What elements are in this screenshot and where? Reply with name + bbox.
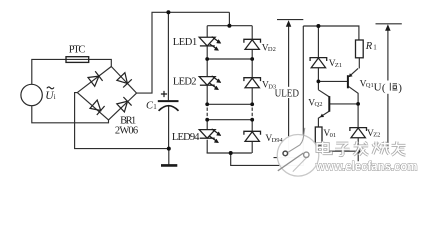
svg-text:1: 1 <box>153 103 157 111</box>
svg-text:(: ( <box>382 82 386 94</box>
svg-text:U: U <box>374 81 382 93</box>
svg-text:PTC: PTC <box>69 45 86 56</box>
svg-text:Q2: Q2 <box>315 101 323 108</box>
svg-text:): ) <box>398 82 402 94</box>
svg-text:2W06: 2W06 <box>115 126 138 137</box>
svg-text:i: i <box>54 93 56 101</box>
svg-text:ULED: ULED <box>275 88 299 100</box>
svg-text:D2: D2 <box>268 46 276 53</box>
svg-text:Z1: Z1 <box>335 62 342 69</box>
svg-text:Z2: Z2 <box>373 132 380 139</box>
svg-text:01: 01 <box>330 132 337 139</box>
svg-text:R: R <box>365 41 373 52</box>
svg-text:LED94: LED94 <box>172 132 200 143</box>
svg-text:Q1: Q1 <box>366 82 374 89</box>
svg-text:LED2: LED2 <box>173 77 197 88</box>
svg-text:LED1: LED1 <box>173 37 197 48</box>
svg-text:1: 1 <box>373 44 377 52</box>
svg-text:www.elecfans.com: www.elecfans.com <box>315 159 417 174</box>
